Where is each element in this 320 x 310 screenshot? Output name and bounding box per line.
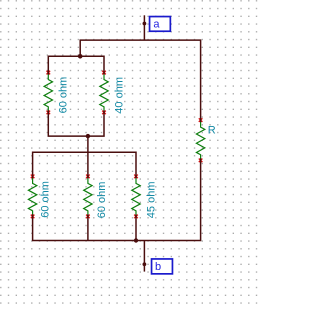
svg-text:60 ohm: 60 ohm	[96, 182, 108, 219]
resistor 45 ohm (group2 right)	[132, 175, 140, 219]
node b box	[152, 259, 173, 274]
junction: group1 bottom rail / middle drop	[86, 134, 90, 138]
wire: group2 top rail with legs	[33, 152, 136, 178]
svg-text:60 ohm: 60 ohm	[57, 77, 69, 114]
svg-text:45 ohm: 45 ohm	[145, 181, 157, 218]
wire: stub from terminal a down to top rail	[143, 15, 145, 40]
wire: group1 bottom rail with legs	[48, 110, 104, 136]
resistor 60 ohm (group1 left)	[44, 71, 52, 114]
terminal pin a	[143, 22, 147, 26]
svg-text:60 ohm: 60 ohm	[40, 181, 52, 218]
svg-text:40 ohm: 40 ohm	[114, 77, 126, 114]
wire: group2 middle bottom leg	[87, 214, 89, 240]
wire: group1 top rail with legs	[48, 56, 104, 74]
wire: top rail with left drop and right branch to R	[80, 40, 200, 122]
svg-text:b: b	[155, 261, 161, 273]
junction: top rail / group1 top rail	[78, 54, 83, 59]
wire: group2 right bottom leg	[135, 214, 137, 240]
junction: bottom rail / 45 ohm leg	[134, 238, 138, 242]
terminal pin b	[143, 262, 147, 266]
wire: stub from bottom rail down to terminal b	[143, 241, 145, 272]
resistor R (right branch)	[196, 118, 204, 162]
resistor 60 ohm (group2 left)	[28, 175, 36, 219]
node a box	[150, 17, 171, 32]
wire: middle drop through group2 top rail	[87, 136, 89, 178]
svg-text:R: R	[208, 124, 216, 136]
wire: bottom rail with left leg and R bottom leg	[33, 158, 201, 240]
svg-text:a: a	[153, 18, 160, 30]
resistor 60 ohm (group2 middle)	[84, 175, 92, 219]
resistor 40 ohm (group1 right)	[100, 71, 108, 114]
